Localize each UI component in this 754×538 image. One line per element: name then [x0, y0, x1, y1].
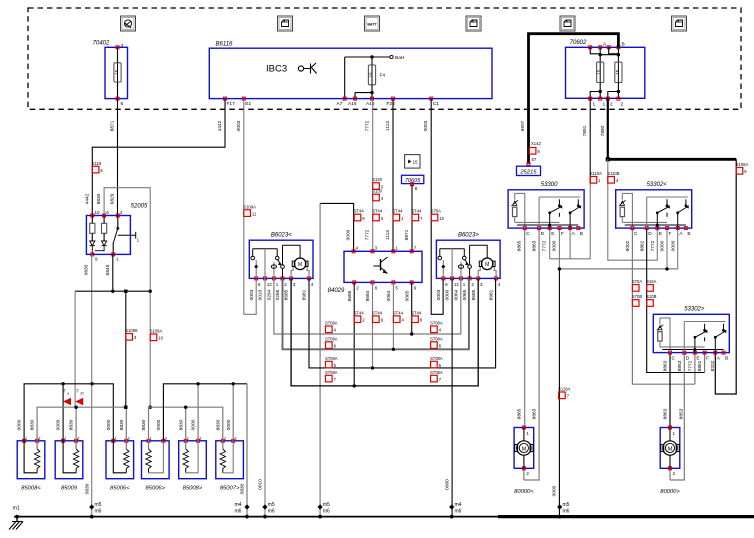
- svg-text:8862: 8862: [697, 360, 703, 371]
- svg-text:S70A: S70A: [632, 279, 642, 284]
- svg-text:M: M: [522, 446, 527, 452]
- svg-text:8830: 8830: [119, 419, 125, 430]
- svg-text:0000: 0000: [445, 289, 451, 300]
- svg-text:F: F: [561, 231, 564, 237]
- svg-text:m5: m5: [95, 502, 102, 508]
- svg-text:3: 3: [121, 43, 124, 49]
- svg-text:0064: 0064: [454, 289, 460, 300]
- svg-text:m6: m6: [235, 509, 242, 515]
- svg-text:S10A: S10A: [646, 279, 656, 284]
- svg-text:S118A: S118A: [558, 387, 570, 392]
- svg-text:S130: S130: [372, 177, 382, 182]
- svg-text:7772: 7772: [365, 120, 371, 131]
- svg-text:B: B: [622, 42, 625, 48]
- svg-text:3: 3: [77, 436, 79, 440]
- svg-text:S708A: S708A: [430, 356, 443, 361]
- svg-text:84029: 84029: [328, 288, 345, 294]
- svg-text:M: M: [485, 262, 489, 268]
- svg-text:0000: 0000: [552, 240, 558, 251]
- svg-text:3: 3: [38, 436, 40, 440]
- svg-text:m6: m6: [455, 509, 462, 515]
- svg-text:8981: 8981: [302, 289, 308, 300]
- svg-text:0000: 0000: [56, 419, 62, 430]
- svg-text:8865: 8865: [517, 240, 523, 251]
- svg-text:S110A: S110A: [590, 171, 602, 176]
- svg-text:8684: 8684: [365, 290, 371, 301]
- svg-text:15: 15: [114, 69, 119, 74]
- svg-text:12: 12: [267, 282, 273, 287]
- svg-text:6849: 6849: [105, 264, 111, 275]
- svg-text:E: E: [551, 231, 554, 237]
- svg-text:BaH: BaH: [395, 55, 405, 61]
- svg-text:A16: A16: [348, 101, 357, 107]
- svg-text:F: F: [706, 356, 709, 362]
- svg-text:1113: 1113: [385, 230, 391, 240]
- svg-text:S708A: S708A: [430, 336, 443, 341]
- svg-text:S70B: S70B: [632, 294, 642, 299]
- svg-text:F28: F28: [387, 101, 396, 107]
- svg-text:B: B: [687, 231, 690, 237]
- svg-text:ST44: ST44: [411, 310, 422, 315]
- svg-text:8871: 8871: [404, 229, 410, 240]
- svg-text:0003: 0003: [423, 120, 429, 131]
- svg-text:IBC3: IBC3: [266, 64, 287, 75]
- svg-text:8830: 8830: [96, 193, 102, 204]
- svg-text:8830: 8830: [215, 419, 221, 430]
- svg-text:52005: 52005: [131, 204, 148, 210]
- svg-text:8830: 8830: [178, 419, 184, 430]
- svg-text:0000: 0000: [156, 419, 162, 430]
- svg-text:15: 15: [413, 160, 419, 165]
- svg-text:10: 10: [439, 216, 444, 221]
- svg-text:15: 15: [615, 69, 620, 74]
- svg-text:M: M: [298, 262, 302, 268]
- svg-text:B6023<: B6023<: [271, 233, 292, 239]
- svg-text:S708A: S708A: [325, 321, 338, 326]
- svg-text:3: 3: [234, 436, 236, 440]
- svg-text:S119: S119: [92, 161, 102, 166]
- svg-text:S708A: S708A: [430, 321, 443, 326]
- svg-text:7890: 7890: [600, 125, 606, 136]
- svg-text:0000: 0000: [660, 240, 666, 251]
- svg-text:15: 15: [368, 72, 373, 77]
- svg-text:B: B: [725, 356, 728, 362]
- svg-text:0294: 0294: [267, 289, 273, 300]
- svg-text:1: 1: [150, 436, 152, 440]
- svg-text:BATT: BATT: [367, 22, 377, 26]
- svg-text:m1: m1: [13, 506, 20, 512]
- svg-text:0003: 0003: [236, 120, 242, 131]
- svg-text:ST44: ST44: [412, 209, 423, 214]
- svg-text:70402: 70402: [93, 41, 110, 47]
- svg-text:1: 1: [603, 102, 606, 108]
- svg-text:ST44: ST44: [393, 310, 404, 315]
- svg-text:M: M: [668, 446, 673, 452]
- svg-text:12: 12: [454, 282, 460, 287]
- svg-text:0064: 0064: [386, 290, 392, 301]
- svg-text:15: 15: [597, 69, 602, 74]
- svg-text:D: D: [648, 231, 652, 237]
- svg-text:1: 1: [115, 436, 117, 440]
- svg-text:ST44: ST44: [354, 209, 365, 214]
- svg-text:7772: 7772: [688, 360, 694, 371]
- svg-text:85009: 85009: [61, 486, 78, 492]
- svg-text:11: 11: [252, 211, 257, 216]
- svg-text:E1: E1: [245, 101, 251, 107]
- svg-text:0003: 0003: [249, 289, 255, 300]
- svg-text:S70A: S70A: [431, 209, 441, 214]
- svg-text:8830: 8830: [141, 419, 147, 430]
- svg-text:8981: 8981: [489, 289, 495, 300]
- svg-text:8685: 8685: [347, 290, 353, 301]
- svg-text:S708A: S708A: [325, 336, 338, 341]
- svg-text:S108A: S108A: [736, 162, 749, 167]
- svg-text:S10B: S10B: [646, 294, 656, 299]
- svg-text:0003: 0003: [436, 289, 442, 300]
- svg-text:1: 1: [64, 436, 66, 440]
- svg-text:22: 22: [80, 392, 84, 396]
- svg-text:10: 10: [95, 210, 101, 215]
- svg-text:m5: m5: [563, 502, 570, 508]
- svg-text:C: C: [634, 231, 638, 237]
- svg-text:4442: 4442: [217, 120, 223, 131]
- svg-text:0065: 0065: [404, 290, 410, 301]
- svg-text:ST44: ST44: [372, 209, 383, 214]
- svg-text:85008>: 85008>: [183, 486, 203, 492]
- svg-text:S1088: S1088: [125, 328, 138, 333]
- svg-text:0830: 0830: [84, 483, 90, 494]
- svg-text:8862: 8862: [639, 240, 645, 251]
- svg-text:m5: m5: [268, 502, 275, 508]
- svg-text:0000: 0000: [191, 419, 197, 430]
- svg-text:0830: 0830: [84, 264, 90, 275]
- svg-text:8685: 8685: [284, 289, 290, 300]
- svg-text:B: B: [580, 231, 583, 237]
- svg-text:85008<: 85008<: [21, 486, 41, 492]
- svg-text:87: 87: [532, 157, 537, 162]
- svg-text:8853: 8853: [677, 360, 683, 371]
- svg-text:53300: 53300: [541, 182, 558, 188]
- svg-text:S109A: S109A: [150, 329, 163, 334]
- svg-text:7772: 7772: [542, 240, 548, 251]
- svg-text:0000: 0000: [106, 419, 112, 430]
- svg-text:S708A: S708A: [325, 370, 338, 375]
- svg-text:0000: 0000: [346, 229, 352, 240]
- svg-text:C1: C1: [433, 101, 439, 107]
- svg-text:F: F: [669, 231, 672, 237]
- svg-text:X142: X142: [531, 141, 541, 146]
- svg-text:3: 3: [199, 436, 201, 440]
- svg-text:D: D: [686, 356, 690, 362]
- svg-text:E: E: [659, 231, 662, 237]
- svg-text:0265: 0265: [275, 289, 281, 300]
- svg-text:7772: 7772: [650, 240, 656, 251]
- svg-text:m6: m6: [323, 509, 330, 515]
- svg-text:0000: 0000: [226, 419, 232, 430]
- svg-text:0000: 0000: [670, 240, 676, 251]
- svg-text:1113: 1113: [385, 121, 391, 131]
- svg-text:10: 10: [158, 336, 163, 341]
- svg-text:C: C: [526, 231, 530, 237]
- svg-text:70602: 70602: [570, 40, 587, 46]
- svg-text:m6: m6: [563, 509, 570, 515]
- svg-text:ST44: ST44: [393, 209, 404, 214]
- svg-text:0000: 0000: [552, 485, 558, 496]
- svg-text:53302<: 53302<: [647, 182, 668, 188]
- svg-text:D: D: [541, 231, 545, 237]
- svg-text:A15: A15: [366, 101, 375, 107]
- svg-text:F17: F17: [227, 101, 236, 107]
- svg-text:0065: 0065: [462, 289, 468, 300]
- svg-text:S130: S130: [372, 189, 382, 194]
- svg-text:1: 1: [187, 436, 189, 440]
- svg-text:1: 1: [593, 102, 596, 108]
- svg-text:S708A: S708A: [325, 356, 338, 361]
- svg-text:2: 2: [610, 102, 613, 108]
- svg-text:53302>: 53302>: [684, 306, 705, 312]
- svg-text:a: a: [67, 392, 69, 396]
- svg-text:0000: 0000: [17, 419, 23, 430]
- svg-text:8685: 8685: [471, 289, 477, 300]
- svg-text:m6: m6: [268, 509, 275, 515]
- svg-text:7772: 7772: [365, 229, 371, 240]
- svg-text:85006<: 85006<: [110, 486, 130, 492]
- svg-text:8863: 8863: [662, 360, 668, 371]
- svg-text:m4: m4: [235, 502, 242, 508]
- svg-text:S708A: S708A: [430, 370, 443, 375]
- svg-text:1: 1: [224, 436, 226, 440]
- svg-text:8863: 8863: [531, 240, 537, 251]
- svg-text:B6116: B6116: [216, 42, 234, 48]
- svg-text:A7: A7: [337, 101, 343, 107]
- svg-text:3: 3: [128, 436, 130, 440]
- svg-text:8830: 8830: [69, 419, 75, 430]
- svg-text:7891: 7891: [582, 125, 588, 136]
- svg-text:1: 1: [25, 436, 27, 440]
- svg-text:8202: 8202: [710, 360, 716, 371]
- svg-text:8863: 8863: [662, 408, 668, 419]
- svg-text:0010: 0010: [258, 479, 264, 490]
- svg-text:25215: 25215: [519, 170, 537, 176]
- svg-text:80000<: 80000<: [514, 489, 534, 495]
- svg-text:ST44: ST44: [354, 310, 365, 315]
- svg-text:85007>: 85007>: [220, 486, 240, 492]
- svg-text:8871: 8871: [110, 120, 116, 131]
- svg-text:8863: 8863: [532, 408, 538, 419]
- svg-text:m5: m5: [323, 502, 330, 508]
- svg-text:8853: 8853: [679, 408, 685, 419]
- svg-text:6829: 6829: [110, 193, 116, 204]
- svg-text:C: C: [672, 356, 676, 362]
- svg-text:ST44: ST44: [372, 310, 383, 315]
- svg-text:8002: 8002: [625, 240, 631, 251]
- svg-text:m4: m4: [455, 502, 462, 508]
- svg-text:S110B: S110B: [607, 171, 619, 176]
- svg-text:3: 3: [165, 436, 167, 440]
- svg-text:F4: F4: [380, 73, 386, 79]
- svg-text:S109A: S109A: [243, 204, 256, 209]
- svg-text:80000>: 80000>: [660, 489, 680, 495]
- svg-text:8830: 8830: [30, 419, 36, 430]
- svg-text:4442: 4442: [84, 193, 90, 204]
- svg-text:E: E: [696, 356, 699, 362]
- svg-text:6: 6: [121, 101, 124, 107]
- svg-text:2: 2: [621, 102, 624, 108]
- svg-text:85006>: 85006>: [146, 486, 166, 492]
- svg-text:0830: 0830: [240, 483, 246, 494]
- svg-text:0000: 0000: [445, 479, 451, 490]
- svg-text:8865: 8865: [517, 408, 523, 419]
- svg-text:0010: 0010: [258, 289, 264, 300]
- svg-text:9907: 9907: [520, 120, 526, 131]
- svg-text:m6: m6: [95, 509, 102, 515]
- svg-text:B6023>: B6023>: [458, 233, 479, 239]
